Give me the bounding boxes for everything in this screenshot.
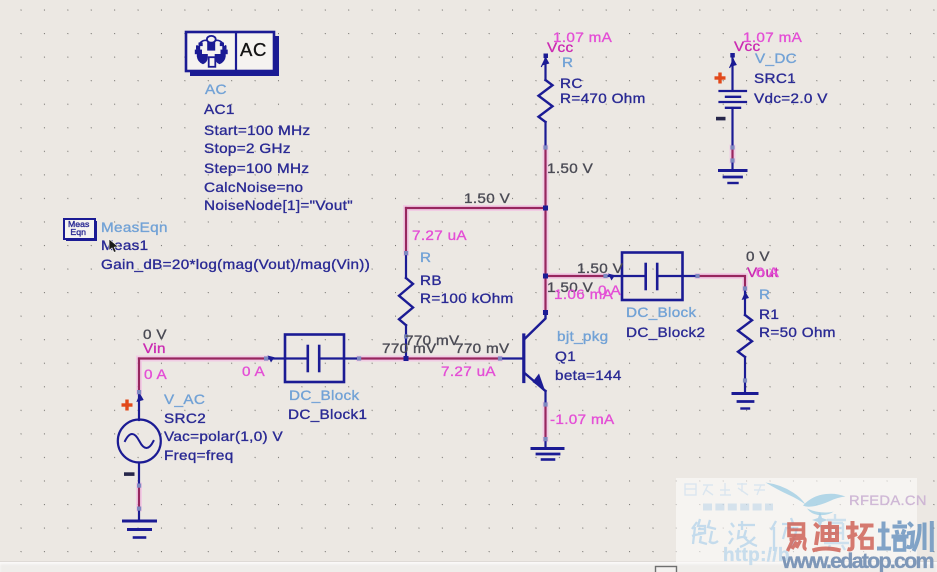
watermark char 迪 (red) xyxy=(813,522,841,551)
watermark url text xyxy=(723,549,790,563)
wire RC bottom to collector node xyxy=(544,148,546,313)
watermark corner box xyxy=(656,567,677,572)
watermark bird logo xyxy=(766,483,846,516)
wire RB top horizontal to collector column xyxy=(406,207,546,209)
watermark www.edatop.com xyxy=(782,554,933,568)
label DC_Block2 xyxy=(577,261,623,275)
plus sign SRC2 xyxy=(122,400,133,411)
watermark char 训 (blue) xyxy=(907,521,932,552)
label RB xyxy=(412,228,467,242)
label RC xyxy=(553,30,612,44)
ground R1 xyxy=(733,381,757,409)
label Q1 xyxy=(557,329,609,343)
source SRC1 V_DC battery xyxy=(720,57,747,148)
wire SRC2 bottom to ground xyxy=(138,486,140,509)
watermark char 易 (red) xyxy=(788,524,807,551)
wire SRC1 bottom to ground xyxy=(731,148,733,161)
AC gear icon xyxy=(195,36,228,67)
wire Vin horizontal (SRC2 to DC_Block1) xyxy=(139,357,266,359)
label AC icon text xyxy=(240,43,267,57)
watermark small text 网友上传于 xyxy=(685,483,765,495)
current arrow DC_Block2 pin1 xyxy=(608,274,615,281)
label wire 1.50V (RB top) xyxy=(464,191,510,205)
wire Vin vertical (SRC2) xyxy=(138,359,140,393)
label MeasEqn icon text xyxy=(68,221,89,237)
watermark char 真 (behind) xyxy=(824,514,849,550)
capacitor DC_Block1 xyxy=(266,335,359,383)
resistor RB xyxy=(399,253,413,359)
current arrow SRC2 xyxy=(136,394,143,403)
watermark panel xyxy=(676,478,917,562)
current arrow R1 xyxy=(742,292,749,301)
wire collector to DC_Block2 xyxy=(546,275,606,277)
wire halo glow xyxy=(139,148,745,509)
label 770mV x3 xyxy=(405,333,460,347)
watermark char 培 (blue) xyxy=(877,521,909,551)
minus sign SRC2 xyxy=(124,472,135,476)
AC controller block U_AC xyxy=(186,32,279,76)
wire Q1 emitter to ground xyxy=(544,405,546,440)
wire RB top vertical xyxy=(405,208,407,253)
watermark squares row xyxy=(703,504,773,511)
ground SRC2 xyxy=(124,509,156,538)
current arrow SRC1 xyxy=(730,59,737,68)
current arrow DC_Block1 pin1 xyxy=(268,356,275,363)
plus sign SRC1 xyxy=(715,73,726,84)
junction node RB bottom xyxy=(404,356,409,361)
wire DC_Block1 to Q1 base xyxy=(359,357,500,359)
junction node collector xyxy=(543,310,548,315)
watermark RFEDA.CN xyxy=(849,494,927,508)
wire DC_Block2 to Vout node xyxy=(698,276,746,289)
watermark char 波 xyxy=(729,521,757,547)
text labels layer xyxy=(0,0,937,1)
ground Q1 emitter xyxy=(532,439,563,460)
label SRC2 node xyxy=(143,327,167,341)
watermark char 拓 (red) xyxy=(846,521,874,549)
watermark sparkle xyxy=(812,512,828,528)
Vcc node square (RC top) xyxy=(544,54,549,59)
junction node RB top wire xyxy=(543,206,548,211)
capacitor DC_Block2 xyxy=(606,253,698,301)
label Vout / R1 xyxy=(746,249,770,263)
minus sign SRC1 xyxy=(716,117,726,121)
Vcc node square (SRC1 top) xyxy=(730,53,735,58)
Q1 emitter arrow xyxy=(533,374,546,391)
source SRC2 V_AC xyxy=(118,392,161,486)
ground SRC1 xyxy=(720,161,747,184)
label MeasEqn xyxy=(101,220,168,234)
resistor R1 xyxy=(738,289,752,381)
resistor RC xyxy=(539,57,553,148)
current arrow RC xyxy=(542,57,549,66)
pin squares (wire endpoints) xyxy=(137,145,747,510)
junction node collector/DC_Block2 xyxy=(543,274,548,279)
label DC_Block1 xyxy=(289,388,359,402)
mouse cursor xyxy=(108,238,122,256)
label AC params xyxy=(205,82,227,96)
transistor Q1 bjt_pkg xyxy=(500,313,546,405)
MeasEqn block icon xyxy=(64,219,97,241)
label SRC1 xyxy=(743,30,802,44)
watermark char 仿 xyxy=(771,518,801,551)
bottom scrollbar strip xyxy=(0,561,937,572)
watermark char 微 xyxy=(692,519,718,544)
